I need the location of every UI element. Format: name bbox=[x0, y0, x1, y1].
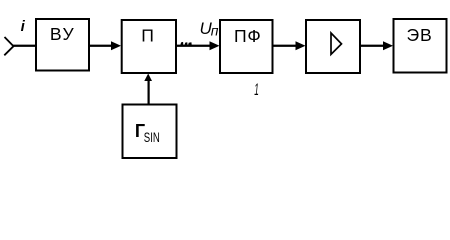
svg-text:1: 1 bbox=[254, 80, 259, 99]
svg-text:П: П bbox=[141, 26, 154, 46]
svg-text:ЭВ: ЭВ bbox=[407, 25, 433, 45]
svg-text:п: п bbox=[211, 22, 219, 38]
svg-text:ВУ: ВУ bbox=[50, 24, 75, 44]
svg-text:ПФ: ПФ bbox=[234, 26, 262, 46]
svg-text:SIN: SIN bbox=[144, 129, 160, 145]
